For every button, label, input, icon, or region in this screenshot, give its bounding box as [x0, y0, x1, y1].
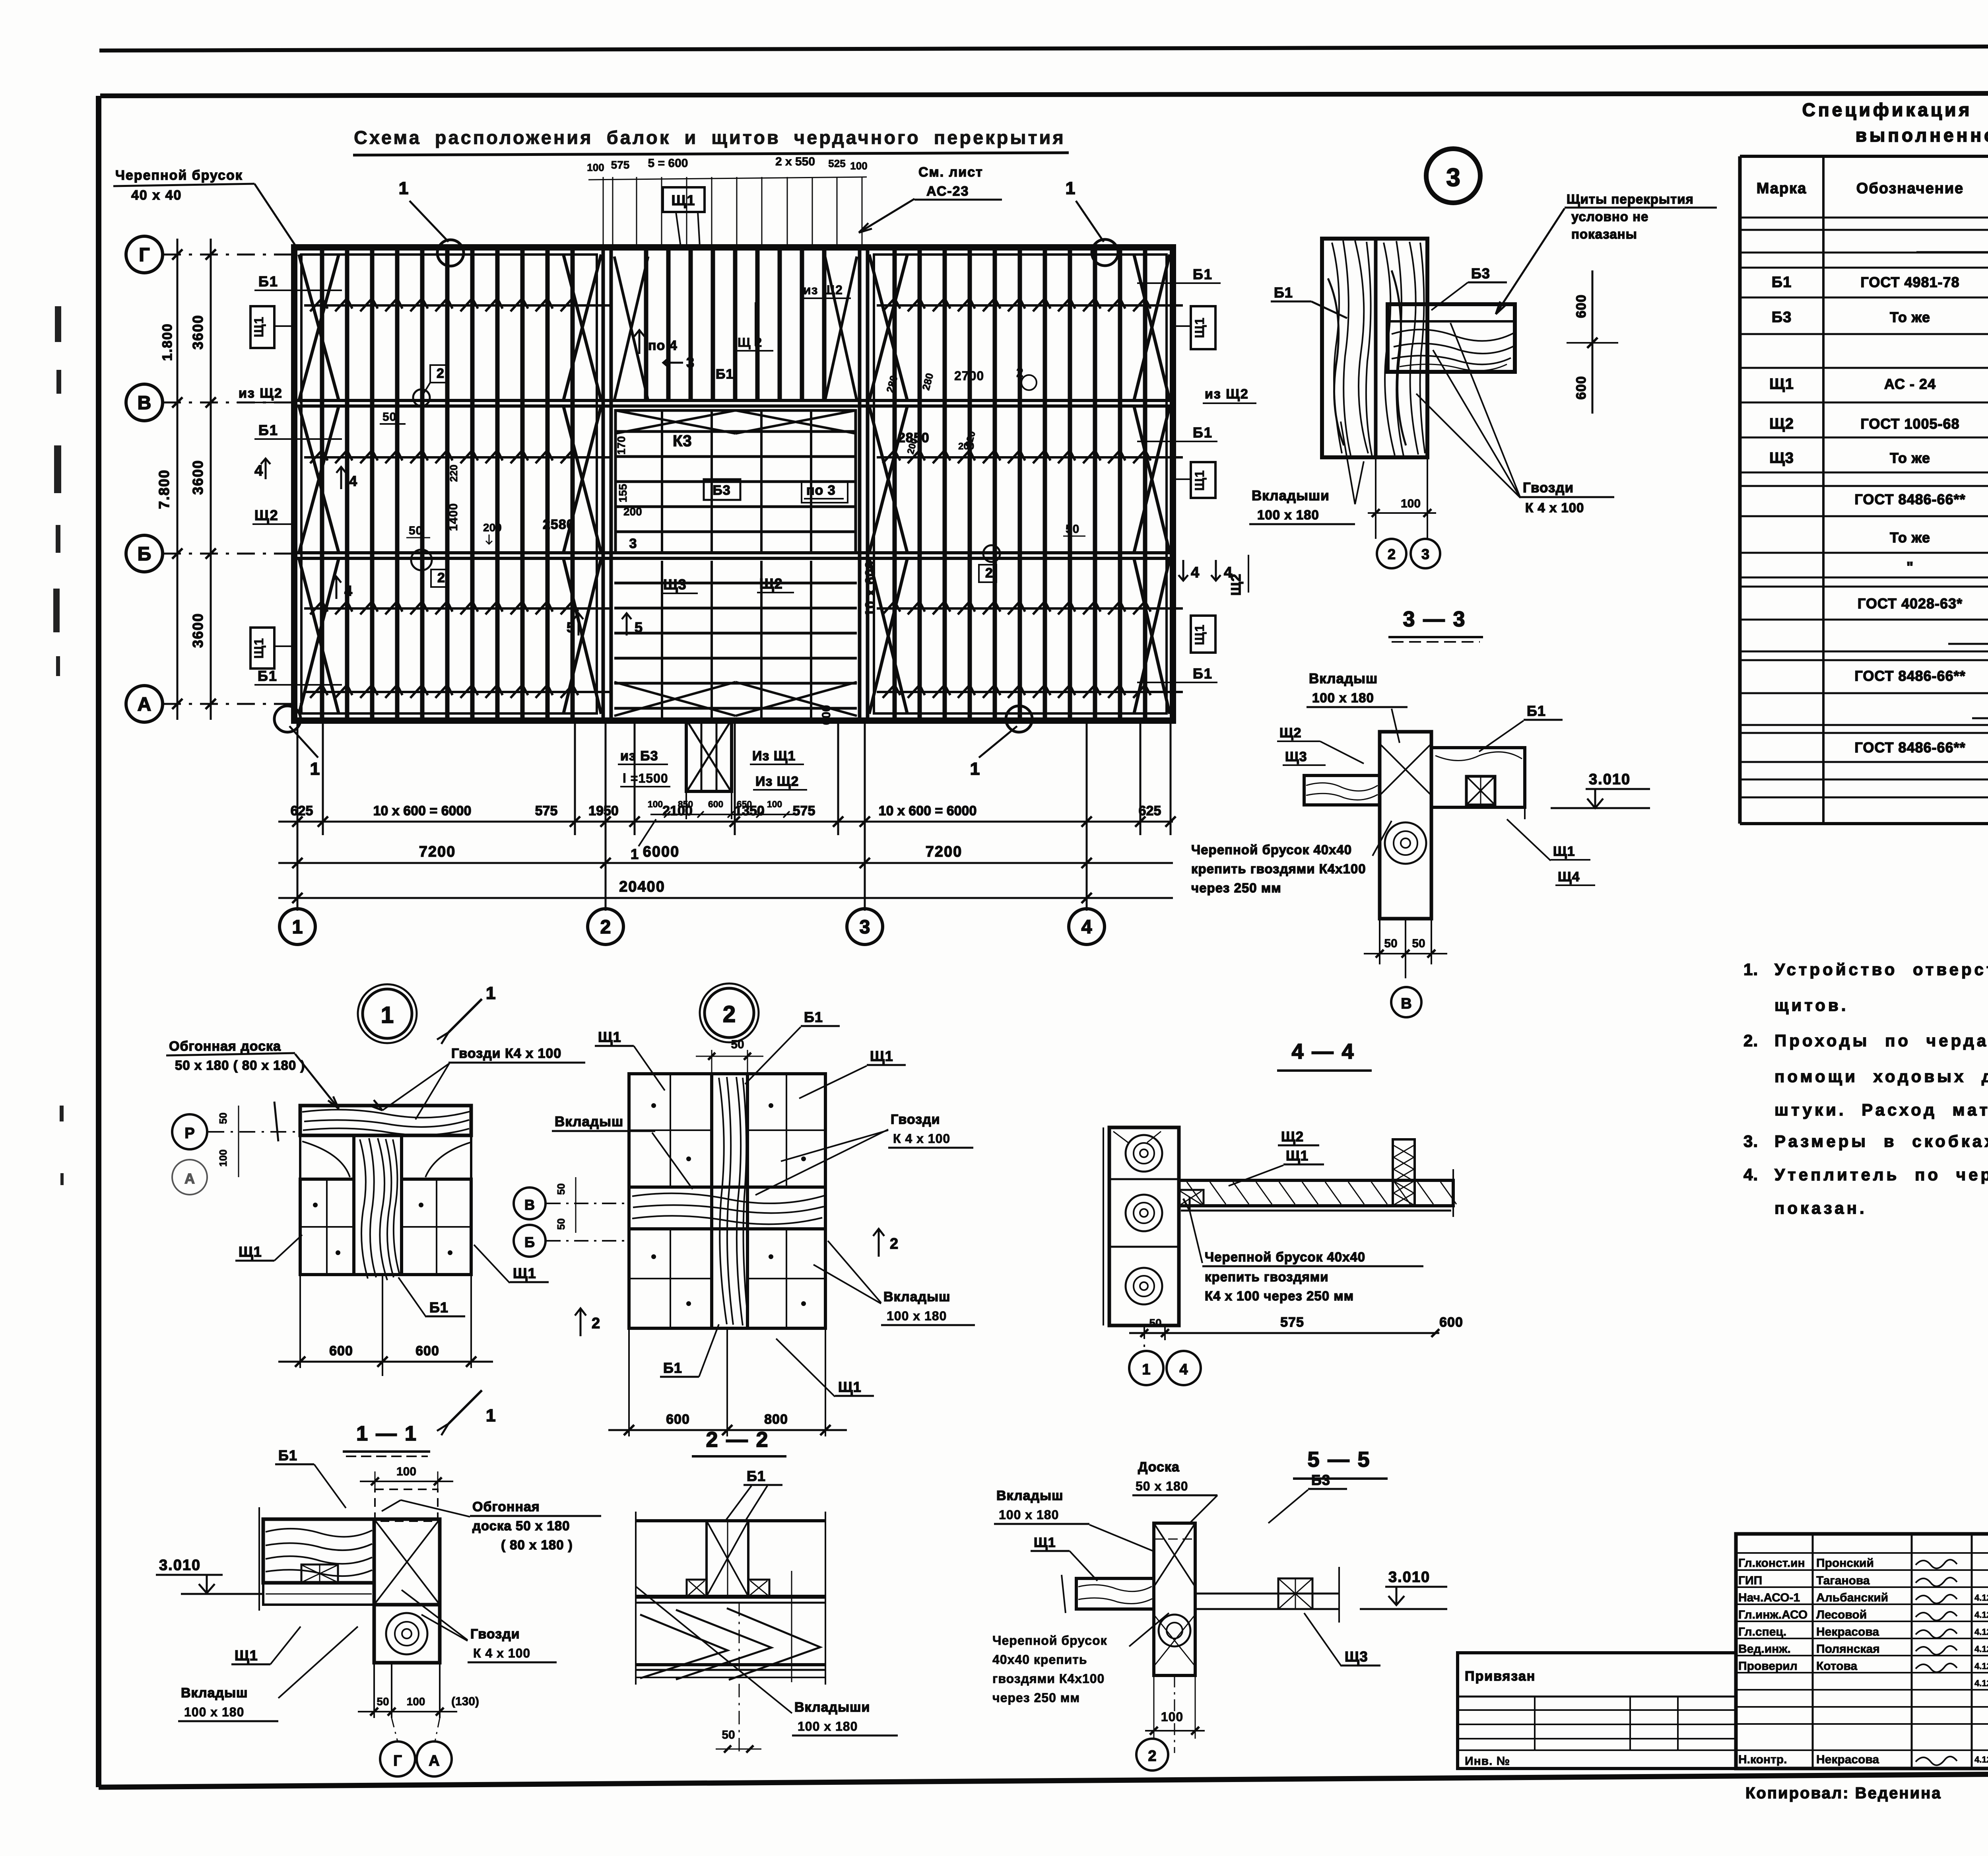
- svg-text:50: 50: [722, 1728, 735, 1741]
- svg-text:3: 3: [860, 917, 870, 938]
- svg-text:5 = 600: 5 = 600: [648, 157, 688, 170]
- svg-text:Щ1: Щ1: [1034, 1535, 1056, 1550]
- svg-text:Г: Г: [139, 245, 149, 266]
- svg-text:Б1: Б1: [1527, 703, 1546, 719]
- svg-text:800: 800: [764, 1412, 788, 1427]
- svg-text:3: 3: [1446, 163, 1460, 192]
- svg-text:50: 50: [382, 410, 396, 424]
- svg-text:Щ1: Щ1: [838, 1379, 862, 1395]
- svg-text:Котова: Котова: [1816, 1660, 1858, 1673]
- svg-text:Б1: Б1: [747, 1468, 766, 1484]
- svg-text:Гл.спец.: Гл.спец.: [1738, 1625, 1786, 1638]
- svg-text:Щ1: Щ1: [598, 1029, 621, 1045]
- svg-text:1: 1: [381, 1002, 394, 1028]
- svg-text:40х40 крепить: 40х40 крепить: [992, 1652, 1087, 1667]
- svg-text:В: В: [138, 393, 151, 414]
- svg-text:Лесовой: Лесовой: [1816, 1608, 1867, 1621]
- svg-text:К3: К3: [673, 432, 692, 450]
- svg-text:625: 625: [1139, 803, 1161, 818]
- svg-text:40 x 40: 40 x 40: [131, 188, 182, 203]
- svg-text:50: 50: [1384, 937, 1397, 950]
- svg-text:Щ3: Щ3: [663, 576, 687, 593]
- svg-text:10 x 600 = 6000: 10 x 600 = 6000: [879, 803, 977, 818]
- svg-text:ГОСТ 1005-68: ГОСТ 1005-68: [1860, 416, 1959, 432]
- svg-text:4: 4: [344, 583, 352, 599]
- svg-text:155: 155: [617, 484, 629, 503]
- svg-text:3600: 3600: [190, 613, 206, 648]
- svg-text:5 — 5: 5 — 5: [1307, 1448, 1371, 1471]
- svg-text:(130): (130): [451, 1695, 479, 1708]
- svg-text:3.010: 3.010: [1388, 1569, 1430, 1586]
- svg-text:50: 50: [555, 1184, 567, 1195]
- svg-text:АС - 24: АС - 24: [1884, 376, 1936, 392]
- svg-text:Н.контр.: Н.контр.: [1738, 1753, 1787, 1766]
- svg-text:Обгонная доска: Обгонная доска: [169, 1039, 281, 1054]
- svg-text:Проверил: Проверил: [1738, 1660, 1798, 1673]
- svg-text:Проходы по чердачному перек: Проходы по чердачному перекрытию выполня…: [1774, 1031, 1988, 1050]
- svg-text:штуки. Расход материалов -: штуки. Расход материалов - 109 п.м.: [1774, 1100, 1988, 1119]
- svg-text:100: 100: [587, 161, 604, 173]
- svg-text:Щ1: Щ1: [1553, 844, 1575, 859]
- svg-text:l =1500: l =1500: [623, 771, 668, 785]
- svg-text:Щ3: Щ3: [1285, 749, 1307, 764]
- svg-text:Б: Б: [524, 1234, 535, 1250]
- svg-text:ГОСТ 8486-66**: ГОСТ 8486-66**: [1854, 739, 1965, 756]
- svg-text:2: 2: [890, 1236, 898, 1252]
- svg-text:крепить гвоздями: крепить гвоздями: [1205, 1269, 1329, 1284]
- svg-text:50: 50: [1412, 937, 1425, 950]
- svg-text:щитов.: щитов.: [1774, 996, 1848, 1014]
- svg-text:Б1: Б1: [1772, 274, 1792, 291]
- svg-text:2580: 2580: [543, 517, 575, 532]
- svg-text:100 x 180: 100 x 180: [1257, 507, 1319, 522]
- svg-text:доска 50 x 180: доска 50 x 180: [472, 1518, 570, 1533]
- svg-text:100 x 180: 100 x 180: [798, 1719, 858, 1734]
- svg-text:Черепной брусок: Черепной брусок: [992, 1633, 1107, 1648]
- svg-text:100: 100: [648, 799, 663, 809]
- svg-text:Привязан: Привязан: [1465, 1669, 1536, 1684]
- svg-text:10 x 600: 10 x 600: [863, 561, 878, 616]
- svg-text:Вкладыш: Вкладыш: [883, 1289, 950, 1304]
- svg-text:Вкладыши: Вкладыши: [1252, 488, 1330, 503]
- svg-text:Б1: Б1: [1193, 266, 1213, 282]
- svg-text:Б3: Б3: [712, 483, 730, 498]
- svg-text:гвоздями К4х100: гвоздями К4х100: [992, 1671, 1105, 1686]
- svg-text:Устройство отверстий произво: Устройство отверстий производить, не нар…: [1774, 960, 1988, 979]
- svg-text:( 80 x 180 ): ( 80 x 180 ): [501, 1537, 573, 1552]
- svg-text:200: 200: [483, 521, 502, 534]
- svg-text:Альбанский: Альбанский: [1816, 1591, 1888, 1604]
- svg-text:из Б3: из Б3: [620, 748, 658, 764]
- svg-text:В: В: [524, 1197, 535, 1213]
- svg-text:Утеплитель по чердачному пе: Утеплитель по чердачному перекрытию усло…: [1774, 1165, 1988, 1184]
- svg-text:Щ1: Щ1: [235, 1647, 258, 1664]
- svg-text:4: 4: [349, 473, 357, 489]
- svg-text:ГИП: ГИП: [1738, 1574, 1762, 1587]
- svg-text:7200: 7200: [926, 843, 963, 860]
- svg-text:Черепной брусок: Черепной брусок: [115, 168, 243, 183]
- svg-text:600: 600: [820, 705, 833, 725]
- svg-text:Щ1: Щ1: [513, 1265, 536, 1281]
- svg-text:Щ1: Щ1: [239, 1244, 262, 1260]
- svg-text:Вкладыши: Вкладыши: [794, 1700, 870, 1715]
- svg-text:1400: 1400: [447, 503, 460, 531]
- svg-text:То же: То же: [1890, 309, 1930, 325]
- svg-text:по 4: по 4: [648, 338, 678, 353]
- svg-text:Щ3: Щ3: [1769, 450, 1794, 466]
- svg-text:4: 4: [1179, 1361, 1188, 1378]
- svg-text:5: 5: [567, 619, 575, 636]
- svg-text:крепить гвоздями К4х100: крепить гвоздями К4х100: [1191, 861, 1366, 876]
- svg-text:7.800: 7.800: [156, 469, 172, 509]
- svg-text:575: 575: [535, 803, 558, 818]
- svg-text:2.: 2.: [1743, 1031, 1758, 1050]
- svg-text:4.12.81: 4.12.81: [1974, 1661, 1988, 1671]
- svg-text:показаны: показаны: [1571, 227, 1637, 241]
- svg-text:100 x 180: 100 x 180: [999, 1508, 1059, 1522]
- svg-text:2: 2: [592, 1315, 600, 1332]
- svg-text:4: 4: [1081, 917, 1092, 938]
- svg-text:Спецификация элементов к сх: Спецификация элементов к схеме расположе…: [1802, 99, 1988, 120]
- svg-text:помощи ходовых досок 50 x 1: помощи ходовых досок 50 x 180 , уложенны…: [1774, 1067, 1988, 1086]
- svg-text:Нач.АСО-1: Нач.АСО-1: [1738, 1591, 1800, 1604]
- svg-text:Гл.конст.ин: Гл.конст.ин: [1738, 1557, 1805, 1570]
- svg-text:Схема расположения балок и щит: Схема расположения балок и щитов чердачн…: [354, 127, 1066, 148]
- svg-text:А: А: [138, 694, 151, 715]
- svg-text:600: 600: [1574, 376, 1589, 400]
- svg-text:Гл.инж.АСО: Гл.инж.АСО: [1738, 1608, 1807, 1621]
- svg-text:600: 600: [329, 1343, 353, 1358]
- svg-text:": ": [1906, 559, 1914, 575]
- svg-text:показан.: показан.: [1774, 1199, 1867, 1217]
- svg-text:5: 5: [635, 619, 643, 636]
- svg-text:3 — 3: 3 — 3: [1403, 607, 1466, 631]
- svg-text:3: 3: [686, 354, 694, 371]
- svg-text:Щ 2: Щ 2: [738, 335, 762, 350]
- svg-text:Б1: Б1: [258, 422, 278, 438]
- svg-text:50: 50: [1066, 523, 1079, 536]
- svg-text:100: 100: [850, 160, 867, 172]
- svg-text:4: 4: [1191, 564, 1199, 581]
- svg-text:Некрасова: Некрасова: [1816, 1625, 1879, 1638]
- svg-text:2: 2: [723, 1001, 736, 1027]
- svg-text:Из Щ1: Из Щ1: [752, 748, 796, 764]
- svg-text:Доска: Доска: [1138, 1460, 1180, 1475]
- svg-text:2700: 2700: [954, 369, 984, 383]
- svg-text:50 x 180 ( 80 x 180 ): 50 x 180 ( 80 x 180 ): [175, 1058, 305, 1073]
- svg-text:Из Щ2: Из Щ2: [755, 774, 799, 789]
- svg-text:3: 3: [629, 536, 637, 551]
- svg-text:100: 100: [1161, 1710, 1183, 1724]
- svg-text:К 4 x 100: К 4 x 100: [473, 1646, 530, 1660]
- svg-text:1: 1: [310, 759, 320, 779]
- svg-text:100: 100: [407, 1695, 425, 1708]
- svg-text:4.12.81: 4.12.81: [1974, 1678, 1988, 1688]
- svg-text:1.: 1.: [1743, 960, 1758, 979]
- svg-text:Щ3: Щ3: [1345, 1648, 1368, 1665]
- svg-text:200: 200: [623, 505, 642, 518]
- svg-text:6000: 6000: [643, 843, 680, 860]
- svg-text:1: 1: [486, 1406, 495, 1425]
- svg-text:Черепной брусок 40х40: Черепной брусок 40х40: [1205, 1250, 1365, 1264]
- svg-text:Р: Р: [184, 1125, 194, 1142]
- svg-text:1: 1: [1142, 1361, 1150, 1378]
- svg-text:50: 50: [555, 1219, 567, 1230]
- svg-text:Б1: Б1: [1274, 284, 1293, 301]
- svg-text:50: 50: [1149, 1317, 1161, 1329]
- svg-text:То же: То же: [1890, 529, 1930, 546]
- svg-text:Щ1: Щ1: [1192, 470, 1207, 491]
- svg-text:из Щ2: из Щ2: [1205, 387, 1249, 402]
- svg-text:через 250 мм: через 250 мм: [1191, 880, 1281, 895]
- svg-text:2: 2: [1388, 546, 1396, 562]
- svg-text:4.12.81: 4.12.81: [1974, 1755, 1988, 1765]
- svg-text:220: 220: [448, 464, 460, 482]
- svg-text:3.010: 3.010: [159, 1557, 201, 1574]
- svg-text:из Щ2: из Щ2: [803, 283, 843, 297]
- svg-text:Полянская: Полянская: [1816, 1642, 1880, 1656]
- svg-text:600: 600: [708, 799, 723, 809]
- svg-text:1: 1: [631, 846, 639, 862]
- svg-text:2 — 2: 2 — 2: [706, 1428, 769, 1452]
- svg-text:Б1: Б1: [258, 273, 278, 290]
- svg-text:Щ2: Щ2: [1279, 725, 1302, 740]
- svg-text:Размеры в скобках для темп: Размеры в скобках для температуры - 40°С…: [1774, 1132, 1988, 1151]
- svg-text:170: 170: [615, 436, 627, 455]
- svg-text:через 250 мм: через 250 мм: [992, 1691, 1080, 1705]
- svg-text:650: 650: [737, 799, 752, 809]
- svg-text:600: 600: [1574, 294, 1589, 318]
- svg-text:Щ1: Щ1: [1769, 376, 1794, 393]
- svg-text:2: 2: [985, 566, 993, 581]
- svg-text:Копировал: Веденина: Копировал: Веденина: [1745, 1784, 1942, 1802]
- svg-text:Б1: Б1: [1193, 665, 1213, 682]
- svg-text:3600: 3600: [190, 460, 206, 495]
- svg-text:по 3: по 3: [806, 483, 836, 498]
- svg-text:А: А: [429, 1753, 439, 1769]
- svg-text:Щ1: Щ1: [1192, 317, 1207, 338]
- svg-text:20400: 20400: [619, 878, 665, 895]
- svg-text:1: 1: [1066, 179, 1075, 198]
- svg-text:Б1: Б1: [429, 1299, 448, 1316]
- svg-text:выполненной на данном листе: выполненной на данном листе: [1856, 125, 1988, 146]
- svg-text:АС-23: АС-23: [926, 184, 969, 199]
- svg-text:ГОСТ 4981-78: ГОСТ 4981-78: [1860, 274, 1959, 290]
- svg-text:4.: 4.: [1743, 1165, 1758, 1184]
- svg-text:2: 2: [600, 917, 611, 938]
- svg-text:Вкладыш: Вкладыш: [1309, 671, 1378, 686]
- svg-text:50 x 180: 50 x 180: [1136, 1479, 1188, 1493]
- svg-text:А: А: [184, 1170, 195, 1187]
- svg-text:2: 2: [1148, 1748, 1156, 1765]
- svg-text:3.010: 3.010: [1589, 771, 1631, 788]
- svg-text:1: 1: [399, 179, 408, 198]
- svg-text:4 — 4: 4 — 4: [1291, 1040, 1355, 1063]
- svg-text:1: 1: [292, 917, 303, 938]
- svg-text:Гвозди: Гвозди: [470, 1627, 520, 1642]
- svg-text:Б: Б: [138, 544, 151, 565]
- svg-text:Б3: Б3: [1471, 265, 1490, 282]
- svg-text:Обгонная: Обгонная: [472, 1499, 540, 1514]
- svg-text:4: 4: [254, 463, 263, 479]
- svg-text:ГОСТ 8486-66**: ГОСТ 8486-66**: [1854, 491, 1965, 507]
- svg-text:Вкладыш: Вкладыш: [181, 1685, 248, 1701]
- svg-text:Б3: Б3: [1772, 309, 1792, 326]
- svg-text:50: 50: [377, 1695, 389, 1708]
- svg-text:Щ2: Щ2: [254, 507, 279, 523]
- svg-text:2: 2: [437, 366, 444, 381]
- svg-text:100: 100: [217, 1149, 229, 1166]
- svg-text:4.12.81: 4.12.81: [1974, 1627, 1988, 1637]
- svg-text:4: 4: [1224, 564, 1232, 581]
- svg-text:Щ2: Щ2: [1281, 1129, 1304, 1145]
- svg-text:Б1: Б1: [663, 1360, 682, 1376]
- svg-text:Г: Г: [393, 1753, 402, 1769]
- svg-text:1 — 1: 1 — 1: [356, 1422, 417, 1445]
- svg-text:2 x 550: 2 x 550: [775, 155, 815, 168]
- svg-text:4.12.81: 4.12.81: [1974, 1593, 1988, 1603]
- svg-text:3.: 3.: [1743, 1132, 1758, 1151]
- svg-text:600: 600: [415, 1343, 439, 1358]
- svg-text:575: 575: [611, 159, 630, 171]
- svg-text:условно не: условно не: [1571, 209, 1648, 224]
- svg-text:К 4 x 100: К 4 x 100: [1525, 500, 1584, 515]
- svg-text:Щ1: Щ1: [1192, 624, 1207, 645]
- svg-text:Инв. №: Инв. №: [1465, 1755, 1510, 1768]
- svg-text:3600: 3600: [190, 315, 206, 350]
- svg-text:525: 525: [828, 157, 845, 169]
- svg-text:50: 50: [409, 524, 423, 537]
- svg-text:Вед.инж.: Вед.инж.: [1738, 1642, 1791, 1656]
- svg-text:100 x 180: 100 x 180: [1312, 690, 1374, 705]
- svg-text:575: 575: [793, 803, 815, 818]
- svg-text:Обозначение: Обозначение: [1856, 180, 1964, 197]
- svg-text:Вкладыш: Вкладыш: [996, 1488, 1063, 1503]
- svg-text:50: 50: [217, 1113, 229, 1124]
- svg-text:Б3: Б3: [1311, 1472, 1330, 1488]
- svg-text:100: 100: [1401, 497, 1421, 510]
- svg-text:Б1: Б1: [258, 668, 278, 684]
- svg-text:100 x 180: 100 x 180: [887, 1309, 947, 1323]
- svg-text:Щ2: Щ2: [1769, 416, 1794, 432]
- svg-text:Щ4: Щ4: [1558, 869, 1580, 884]
- svg-text:Вкладыш: Вкладыш: [555, 1114, 623, 1129]
- svg-text:Б1: Б1: [278, 1447, 297, 1463]
- svg-text:Щ1: Щ1: [252, 317, 266, 337]
- svg-text:600: 600: [1439, 1315, 1463, 1330]
- svg-text:Б1: Б1: [716, 367, 734, 382]
- svg-text:ГОСТ 4028-63*: ГОСТ 4028-63*: [1858, 595, 1963, 612]
- svg-text:См. лист: См. лист: [918, 165, 983, 180]
- svg-text:К4 х 100 через 250 мм: К4 х 100 через 250 мм: [1205, 1289, 1354, 1303]
- svg-text:Пронский: Пронский: [1816, 1557, 1874, 1570]
- svg-text:Щ1: Щ1: [1286, 1148, 1309, 1164]
- svg-text:Щиты перекрытия: Щиты перекрытия: [1567, 192, 1694, 206]
- svg-text:Щ1: Щ1: [252, 638, 266, 659]
- svg-text:Гвозди: Гвозди: [891, 1112, 940, 1127]
- svg-text:Б1: Б1: [804, 1009, 823, 1025]
- svg-text:Гвозди К4 x 100: Гвозди К4 x 100: [451, 1046, 561, 1061]
- svg-text:7200: 7200: [419, 843, 456, 860]
- svg-text:1950: 1950: [588, 803, 619, 818]
- svg-text:из Щ2: из Щ2: [239, 386, 283, 401]
- svg-text:Гвозди: Гвозди: [1523, 480, 1574, 496]
- svg-text:4.12.81: 4.12.81: [1974, 1644, 1988, 1654]
- svg-text:ГОСТ 8486-66**: ГОСТ 8486-66**: [1854, 668, 1965, 684]
- svg-text:1: 1: [486, 983, 495, 1003]
- svg-text:100: 100: [396, 1465, 416, 1478]
- svg-text:2: 2: [437, 570, 445, 585]
- svg-text:Щ2: Щ2: [759, 575, 783, 592]
- svg-text:1: 1: [970, 759, 980, 779]
- svg-text:3: 3: [1421, 546, 1429, 562]
- svg-text:Марка: Марка: [1757, 180, 1807, 197]
- svg-text:100: 100: [767, 799, 782, 809]
- svg-text:К 4 x 100: К 4 x 100: [893, 1131, 950, 1146]
- svg-text:50: 50: [731, 1038, 744, 1051]
- svg-text:100 x 180: 100 x 180: [184, 1705, 244, 1719]
- svg-text:В: В: [1401, 995, 1411, 1012]
- svg-text:600: 600: [666, 1412, 690, 1427]
- svg-text:Некрасова: Некрасова: [1816, 1753, 1879, 1766]
- svg-text:1.800: 1.800: [160, 323, 175, 361]
- svg-text:625: 625: [291, 803, 313, 818]
- svg-text:10 x 600 = 6000: 10 x 600 = 6000: [373, 803, 472, 818]
- svg-text:Щ1: Щ1: [870, 1048, 893, 1064]
- svg-text:Черепной брусок 40х40: Черепной брусок 40х40: [1191, 842, 1352, 857]
- svg-text:575: 575: [1280, 1315, 1304, 1330]
- svg-text:То же: То же: [1890, 450, 1930, 466]
- svg-text:4.12.81: 4.12.81: [1974, 1610, 1988, 1620]
- svg-text:Щ1: Щ1: [672, 192, 696, 208]
- svg-text:Таганова: Таганова: [1816, 1574, 1870, 1587]
- svg-text:Б1: Б1: [1193, 424, 1213, 441]
